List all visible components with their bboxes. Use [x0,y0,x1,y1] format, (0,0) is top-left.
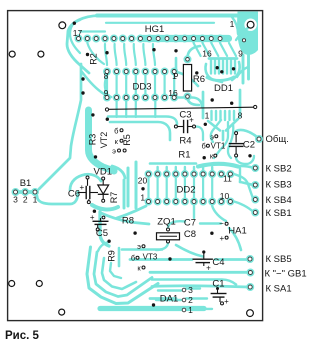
copper pour top-right corner [237,12,258,55]
pads DD3 top row (8..1) [104,69,177,75]
label e VT3 [137,242,141,251]
label C4 [212,257,224,268]
label plus HA1 [219,234,224,243]
pad K SB1 terminal [252,210,258,216]
label K SA1 [266,284,292,295]
svg-text:DD2: DD2 [176,185,195,196]
via dot (83,93) [81,91,84,94]
svg-text:C3: C3 [179,110,191,121]
wire B1 to C6 [37,192,78,204]
svg-text:R3: R3 [88,134,98,146]
wire DD1 side left [202,92,205,118]
svg-text:C1: C1 [212,279,224,290]
wire HG1 pad2 to DD3 pad1 [87,43,104,64]
label pin 20 DD2 [138,176,148,186]
pads VT2 (b,k,e) [118,129,127,152]
wire DD1 funnel left [208,121,220,131]
wire right mid vert [239,168,241,182]
pads battery B1 [13,189,39,195]
pad HA1 plus [225,236,228,239]
pads DA1 (3,2,1) [182,288,186,312]
wires mid to DD2 [158,167,213,171]
label ZQ1 [157,217,175,228]
label C6 [68,189,80,200]
svg-text:9: 9 [104,88,109,98]
svg-text:11: 11 [223,174,232,184]
wire to SB1 pad [234,202,254,213]
label b VT2 [114,126,118,135]
label K SB3 [266,179,292,190]
svg-text:К SB1: К SB1 [266,208,292,219]
label pin 1 DD2 [140,193,145,203]
via dot (170,259) [168,257,171,260]
wire R8 trace [101,213,149,224]
via dot (109.1,241.2) [107,240,110,243]
wire DD3 left col [105,75,107,94]
label K SB5 [266,254,292,265]
svg-text:DD1: DD1 [214,83,233,94]
label b VT3 [131,254,135,263]
label e VT1 [210,132,214,141]
wire DD1 side right [239,90,242,116]
label pin 9 DD3 [104,88,109,98]
wire DA1 link bot [186,308,212,310]
via dot (107,52.7) [105,51,108,54]
wire bottom bus GB1 [150,271,248,274]
caption Ris. 5 [5,330,40,342]
pads ZQ1 [167,228,170,243]
svg-text:+: + [90,213,95,222]
label C3 [179,110,191,121]
label DD1 [214,83,233,94]
via dot (94.4,211.2) [93,210,96,213]
pad K SB2 terminal [252,165,258,171]
svg-text:R6: R6 [193,74,205,85]
pad K SA1 terminal [247,284,253,290]
wire C5 left vert [100,212,109,246]
label VT2 [99,132,109,149]
label B1 pin 2 [23,195,28,205]
wire HG1 second bus [106,22,214,24]
pad C1 plus [221,302,224,305]
wire mid horiz 2 [110,122,170,140]
svg-text:R9: R9 [107,250,117,262]
crystal ZQ1 body [157,233,180,240]
svg-text:HA1: HA1 [228,226,246,237]
svg-text:VT1: VT1 [211,141,226,150]
wire DD3-to-B1 long [39,64,81,189]
via dot (92.9,114.9) [91,113,94,116]
label pin 17 [73,28,83,38]
wire bottom band [100,306,204,311]
label C8 [184,229,196,240]
mounting hole bottom-left-1 [9,281,15,287]
mounting hole bottom-left-2 [36,281,42,287]
svg-text:Общ.: Общ. [266,134,289,145]
via dot (217.2,67.7) [216,66,219,69]
via dot (231.7,103.2) [230,102,233,105]
via dot (211.9,233.2) [210,232,213,235]
via dot (87.5,54.5) [86,53,89,56]
label R7 [109,192,119,204]
label B1 pin 3 [13,195,18,205]
svg-text:VT3: VT3 [143,253,158,262]
label R2 [89,53,99,65]
svg-text:16: 16 [168,88,178,98]
svg-text:DA1: DA1 [160,294,178,305]
wires DD2 inter-row comb [149,178,213,198]
wire DD2 stub to C7 [193,206,195,218]
wire ZQ1 top [168,221,185,228]
wire DA1 link mid [186,297,207,299]
label R5 [122,134,132,146]
svg-text:э: э [210,132,214,141]
label C7 [184,218,196,229]
wire DA1 left mid [156,299,181,301]
svg-text:б: б [114,126,118,135]
wire VT1 diag2 [214,122,228,158]
svg-text:C2: C2 [243,140,255,151]
mounting hole top-left [59,22,66,29]
via dot (221.8,71.8) [220,70,223,73]
mounting hole bottom-right [247,310,254,317]
label e VT2 [112,147,116,156]
pads VT3 (e,b,k) [136,245,145,269]
svg-text:B1: B1 [20,178,32,189]
label DD2 [176,185,195,196]
pad Obshchiy terminal [256,136,262,142]
wire HG1 left hook [67,16,99,74]
via dot (233.5,68.8) [232,67,235,70]
svg-text:К "−" GB1: К "−" GB1 [265,269,307,280]
svg-text:VT2: VT2 [99,132,109,149]
wire ZQ1 bottom [156,243,168,251]
svg-text:C4: C4 [212,257,224,268]
wire bottom bus SA1 [152,286,248,287]
wire bus drop right [232,17,238,34]
svg-text:R4: R4 [179,136,191,147]
svg-text:э: э [112,147,116,156]
pads VD1 [102,177,105,202]
resistor R6 body [183,65,191,92]
wire HG1 row band right [143,35,229,42]
pad C6 bottom [87,201,90,204]
svg-text:К SB2: К SB2 [266,164,292,175]
svg-text:1: 1 [188,305,193,315]
label b VT1 [201,142,205,151]
svg-text:8: 8 [104,71,109,81]
wire VT3 hook mid [94,252,152,297]
label DA1 pin 2 [188,295,193,305]
svg-text:1: 1 [172,71,177,81]
svg-text:+: + [206,264,211,273]
label K minus GB1 [265,269,307,280]
svg-text:К SA1: К SA1 [266,284,292,295]
via dot (212.2,100) [211,98,214,101]
label HG1 [145,24,165,35]
pads R6 [185,56,191,99]
wire VT1 diag3 [228,124,233,158]
label C5 [96,228,108,239]
svg-text:+: + [224,297,229,306]
capacitor C3 [178,115,195,133]
svg-text:C5: C5 [96,228,108,239]
wire HG1 left hook inner [70,20,80,53]
label pin 1 DD1 [205,111,210,121]
mounting hole bottom-mid [59,309,65,315]
wire bottom band up [150,297,176,300]
wire R9 vertical [118,248,121,266]
wire R7 vertical [123,180,126,208]
via dot (143,188.8) [141,187,144,190]
svg-text:C7: C7 [184,218,196,229]
svg-text:8: 8 [238,111,243,121]
wire VD1-R7 diag [112,166,125,178]
via dot (204.2,157.7) [203,156,206,159]
capacitor C5 [90,213,109,228]
label k VT2 [115,137,119,146]
wire VT3 hook inner [102,258,136,289]
svg-text:20: 20 [138,176,148,186]
wire DD1 upper skirt right [232,62,240,80]
wire B1 row [16,190,36,194]
svg-text:+: + [219,234,224,243]
via dot (107.3,119.2) [106,118,109,121]
pad K GB1 terminal [247,270,253,276]
label pin 1 DD3 [172,71,177,81]
pad C5 [96,228,99,231]
wire DD1 upper comb [211,60,235,74]
svg-text:б: б [131,254,135,263]
wire HA1 curve [229,228,241,250]
wire DA1 left top [158,289,181,291]
wire under C6-VD1 [92,205,118,209]
wire mid horiz 1 [108,117,177,125]
wire R6 left vert [175,58,178,74]
pads C3 [174,125,195,128]
svg-text:16: 16 [202,49,212,59]
wire C2 bottom link [236,156,254,164]
wire DD2 stub to HA1 [212,206,226,221]
wire arc over C6 [70,174,101,190]
board outline [8,11,263,321]
wire edge diag join [237,67,248,77]
svg-text:R1: R1 [178,150,190,161]
label pin 10 DD2 [220,191,230,201]
wire VT3 hook outer [87,247,158,304]
wire DD1 funnel stem [222,131,225,140]
svg-text:R8: R8 [122,216,134,227]
capacitor C2 [229,135,244,154]
svg-text:17: 17 [73,28,83,38]
label R4 [179,136,191,147]
wire to SB4 pad [234,174,254,200]
label k VT1 [210,151,214,160]
via dot (176,50.8) [174,49,177,52]
wire R2 branch [82,72,111,97]
wire bottom bus 1 [122,248,162,251]
wire right diag up [236,28,248,40]
label pin 8 DD1 [238,111,243,121]
pads C2 [235,132,238,157]
svg-text:+: + [79,183,84,192]
label B1 pin 1 [33,195,38,205]
wire DD2 to R8 diag [117,206,146,218]
label C1 [212,279,224,290]
pads DD2 bottom row (1..10) [146,199,234,205]
label k VT3 [137,263,141,272]
label K SB1 [266,208,292,219]
wire to SB2 pad [240,166,254,168]
label R6 [193,74,205,85]
wire hook inner horizontal [80,30,105,32]
wire DA1 link top [186,287,200,289]
via dot (250,155.8) [248,154,251,157]
label pin 16 DD3 [168,88,178,98]
svg-text:3: 3 [13,195,18,205]
pads DD3 bottom row (9..16) [104,95,177,101]
wires DD3 bottom stubs [117,101,156,117]
label K SB2 [266,164,292,175]
mounting hole left-1 [9,51,15,57]
wires HG1 pads to DD3 [105,44,155,65]
svg-text:DD3: DD3 [132,82,151,93]
svg-text:2: 2 [188,295,193,305]
label C2 [243,140,255,151]
label DD3 [132,82,151,93]
svg-text:R7: R7 [109,192,119,204]
wire DD3-DD1 link [174,72,198,87]
svg-text:C8: C8 [184,229,196,240]
jumper wire W1 [105,105,256,111]
pad K SB5 terminal [247,256,253,262]
wire R6 bottom link [188,97,200,105]
label pin 1 HG1 [230,19,235,29]
via dot (83,79) [81,77,84,80]
svg-text:К SB5: К SB5 [266,254,292,265]
wire R6 top link [188,46,201,58]
mounting hole left-2 [38,51,44,57]
wire right edge vert2 [247,55,250,79]
via dot (95.5,156.9) [94,155,97,158]
svg-text:э: э [137,242,141,251]
wire C2 to Obsh [236,130,257,137]
pad K SB4 terminal [252,197,258,203]
wire bottom bus middle [152,280,236,285]
label VD1 [94,167,112,178]
pads VT1 (e,b,k) [206,135,217,157]
pad in corner pour [242,39,245,42]
via dot (74.3,23.2) [73,22,76,25]
label K SB4 [266,195,292,206]
svg-text:К SB4: К SB4 [266,195,292,206]
svg-text:Рис. 5: Рис. 5 [5,330,40,342]
svg-text:1: 1 [205,111,210,121]
wire C4 to SB5 [215,258,248,261]
label VT3 [143,253,158,262]
wire band above DD2 [198,164,238,167]
svg-text:R2: R2 [89,53,99,65]
svg-text:VD1: VD1 [94,167,112,178]
wire R3 band [89,110,115,171]
wire DD1 lower comb [212,111,235,120]
svg-text:−: − [219,219,224,228]
label R8 [122,216,134,227]
via dot (205.3,124.3) [204,123,207,126]
diode VD1 [98,180,109,199]
svg-text:1: 1 [230,19,235,29]
wire C3 right link [196,127,203,141]
label DA1 pin 3 [188,285,193,295]
pad C6 top [86,176,89,179]
wire VT3 entry2 [98,242,109,251]
svg-text:HG1: HG1 [145,24,165,35]
wire DD3-DD1 link2 [174,98,202,108]
pad HA1 minus [225,222,228,225]
svg-text:1: 1 [140,193,145,203]
svg-text:ZQ1: ZQ1 [157,217,175,228]
wire mid bottom diag [176,245,203,257]
wire DD1 upper bar [209,57,237,60]
svg-text:C6: C6 [68,189,80,200]
label minus HA1 [219,219,224,228]
capacitor C4 [193,250,213,272]
wire VT3 inner stub [110,263,121,278]
label B1 [20,178,32,189]
label pin 16 DD1 [202,49,212,59]
pad R6 left [174,73,177,76]
wire R1 horizontal [150,162,196,165]
pads HG1 row (17..1) [76,36,224,42]
svg-text:R5: R5 [122,134,132,146]
label R9 [107,250,117,262]
capacitor C1 [211,287,230,306]
via dot (135.1,233.1) [133,231,136,234]
via dot (153.5,305) [152,303,155,306]
svg-text:3: 3 [188,285,193,295]
svg-text:9: 9 [238,49,243,59]
wire DD2 left band [127,168,130,206]
wire to SB3 pad [240,182,254,185]
label R1 [178,150,190,161]
label pin 9 DD1 [238,49,243,59]
label VT1 [211,141,226,150]
wire top bus [97,14,250,18]
label pin 8 DD3 [104,71,109,81]
via dot (154,49.7) [152,48,155,51]
label DA1 pin 1 [188,305,193,315]
mounting hole top-right [247,21,254,28]
wires HG1 pads to DD1 upper [194,43,236,56]
wire DD1 upper skirt [205,64,222,82]
pad K SB3 terminal [252,182,258,188]
wire DD2 left band2 [135,162,138,208]
label R3 [88,134,98,146]
pads DD2 top row (20..11) [146,171,234,177]
capacitor C6 [78,179,98,201]
svg-text:2: 2 [23,195,28,205]
svg-text:1: 1 [33,195,38,205]
wire DD1 mid blob [207,77,234,80]
svg-text:10: 10 [220,191,230,201]
wires DD3 inter-row comb [107,75,174,94]
via dot (196.8,72.9) [195,71,198,74]
wire C7 trace [200,222,221,224]
wire bus to C4 [130,258,192,261]
label pin 11 DD2 [223,174,232,184]
svg-text:б: б [201,142,205,151]
label Obshchiy [266,134,289,145]
